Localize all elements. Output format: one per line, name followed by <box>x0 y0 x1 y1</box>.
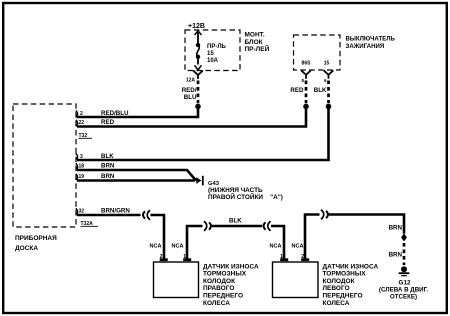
svg-text:+12В: +12В <box>188 23 205 30</box>
panel connector hook pin 22 <box>76 120 78 126</box>
svg-text:2: 2 <box>160 254 163 260</box>
svg-text:BLK: BLK <box>229 218 242 225</box>
wire NCA left sensor pin 1 to BLK link <box>172 226 203 261</box>
wire right sensor pin 2 up to BRN <box>292 215 320 262</box>
ground G12 <box>379 266 428 300</box>
svg-text:RED: RED <box>290 87 304 94</box>
svg-text:BRN/GRN: BRN/GRN <box>101 208 130 215</box>
inline connector (( on BLK link right <box>264 221 271 231</box>
panel connector hook pin 2 <box>76 111 78 117</box>
wire BRN/GRN pin 32 <box>77 208 141 216</box>
svg-text:NCA: NCA <box>172 244 184 250</box>
wire RED pin 22 <box>77 107 306 127</box>
inline connector )) on BLK link left <box>204 221 211 231</box>
svg-text:(СЛЕВА В ДВИГ.: (СЛЕВА В ДВИГ. <box>379 287 428 294</box>
wire BLK between sensors <box>212 218 262 227</box>
svg-text:BLK: BLK <box>314 87 327 94</box>
svg-text:86S: 86S <box>302 61 312 67</box>
svg-text:ПРИБОРНАЯ: ПРИБОРНАЯ <box>15 235 57 242</box>
wire BRN to ground <box>329 215 404 234</box>
wire RED/BLU dashed from fuse <box>182 81 198 104</box>
svg-text:ДОСКА: ДОСКА <box>15 245 38 252</box>
svg-text:12А: 12А <box>186 78 196 84</box>
svg-text:19: 19 <box>79 174 85 180</box>
svg-text:МОНТ.: МОНТ. <box>245 32 265 39</box>
svg-text:ПРАВОГО: ПРАВОГО <box>203 285 234 292</box>
fuse ПР-ЛЬ 15 10А <box>195 31 227 70</box>
panel connector hook pin 18 <box>76 163 78 169</box>
svg-text:18: 18 <box>79 164 85 170</box>
svg-text:BRN: BRN <box>389 225 403 232</box>
svg-text:3: 3 <box>80 154 83 160</box>
svg-text:BLU: BLU <box>184 94 197 101</box>
wire RED dashed from ignition <box>290 81 306 104</box>
ground G43 <box>196 176 283 201</box>
svg-text:КОЛОДОК: КОЛОДОК <box>203 278 235 285</box>
svg-text:15: 15 <box>207 51 214 57</box>
fuse box МОНТ. БЛОК ПР-ЛЕЙ <box>185 30 270 71</box>
svg-text:2: 2 <box>80 111 83 117</box>
svg-text:ОТСЕКЕ): ОТСЕКЕ) <box>390 294 417 301</box>
svg-text:ЗАЖИГАНИЯ: ЗАЖИГАНИЯ <box>346 43 385 50</box>
svg-text:15: 15 <box>324 61 330 67</box>
wire BRN dashed to ground <box>389 243 404 265</box>
svg-text:NCA: NCA <box>270 244 282 250</box>
wire BRN/GRN to left sensor pin 2 <box>150 215 168 261</box>
svg-text:1: 1 <box>183 254 186 260</box>
junction node on BLK <box>326 104 332 110</box>
svg-text:2: 2 <box>301 254 304 260</box>
svg-text:ПЕРЕДНЕГО: ПЕРЕДНЕГО <box>203 293 243 300</box>
svg-text:ДАТЧИК ИЗНОСА: ДАТЧИК ИЗНОСА <box>203 263 259 270</box>
junction node on RED/BLU <box>195 104 201 110</box>
wire BLK to right sensor pin 1 <box>270 226 289 261</box>
svg-text:BRN: BRN <box>101 173 115 180</box>
wire RED/BLU pin 2 <box>77 107 198 118</box>
wire BLK dashed from ignition <box>314 81 329 104</box>
left front brake pad wear sensor box <box>273 262 379 307</box>
panel connector hook pin 3 <box>76 153 78 159</box>
svg-text:ДАТЧИК ИЗНОСА: ДАТЧИК ИЗНОСА <box>323 263 379 270</box>
fuse box terminal 12A connector <box>186 71 203 84</box>
svg-text:BRN: BRN <box>389 252 403 259</box>
connector label T32 <box>79 133 93 139</box>
svg-text:КОЛЕСА: КОЛЕСА <box>323 300 350 307</box>
instrument panel box ПРИБОРНАЯ ДОСКА <box>13 104 76 252</box>
svg-text:NCA: NCA <box>292 244 304 250</box>
panel connector hook pin 32 <box>76 208 78 214</box>
wire BLK pin 3 <box>77 107 329 161</box>
svg-text:10А: 10А <box>207 58 219 64</box>
svg-text:RED: RED <box>101 119 115 126</box>
inline connector (( on BRN/GRN <box>143 210 150 220</box>
svg-text:ВЫКЛЮЧАТЕЛЬ: ВЫКЛЮЧАТЕЛЬ <box>346 36 396 43</box>
svg-text:RED/: RED/ <box>182 87 197 94</box>
svg-text:BRN: BRN <box>101 163 115 170</box>
svg-text:КОЛЕСА: КОЛЕСА <box>203 300 230 307</box>
wire BRN pin 19 <box>77 173 195 181</box>
svg-text:ТОРМОЗНЫХ: ТОРМОЗНЫХ <box>203 271 247 278</box>
svg-text:БЛОК: БЛОК <box>245 39 263 46</box>
svg-text:ПРАВОЙ СТОЙКИ "А"): ПРАВОЙ СТОЙКИ "А") <box>208 192 283 201</box>
splice diamond on BRN <box>401 233 407 241</box>
panel connector hook pin 19 <box>76 174 78 180</box>
svg-text:1: 1 <box>280 254 283 260</box>
svg-text:ПЕРЕДНЕГО: ПЕРЕДНЕГО <box>323 293 363 300</box>
svg-text:ТОРМОЗНЫХ: ТОРМОЗНЫХ <box>323 271 367 278</box>
svg-text:RED/BLU: RED/BLU <box>101 110 129 117</box>
svg-text:ПР-ЛЕЙ: ПР-ЛЕЙ <box>245 44 270 53</box>
svg-text:NCA: NCA <box>150 244 162 250</box>
svg-text:ЛЕВОГО: ЛЕВОГО <box>323 285 350 292</box>
ignition terminal 15 connector, pin 6 <box>324 70 334 82</box>
svg-text:КОЛОДОК: КОЛОДОК <box>323 278 355 285</box>
svg-text:(НИЖНЯЯ ЧАСТЬ: (НИЖНЯЯ ЧАСТЬ <box>208 187 263 194</box>
ignition switch box ВЫКЛЮЧАТЕЛЬ ЗАЖИГАНИЯ <box>294 35 396 70</box>
svg-text:G12: G12 <box>399 280 411 287</box>
svg-text:ПР-ЛЬ: ПР-ЛЬ <box>207 44 227 50</box>
connector label T32A <box>81 221 99 227</box>
svg-text:BLK: BLK <box>101 153 114 160</box>
ignition terminal 86S connector, pin 8 <box>301 70 311 82</box>
right front brake pad wear sensor box <box>154 262 260 307</box>
inline connector )) on BRN <box>321 210 328 220</box>
node +12B <box>188 23 205 30</box>
svg-text:22: 22 <box>79 120 85 126</box>
svg-text:32: 32 <box>79 209 85 215</box>
wire BRN pin 18 <box>77 163 196 181</box>
junction node on RED <box>303 104 309 110</box>
